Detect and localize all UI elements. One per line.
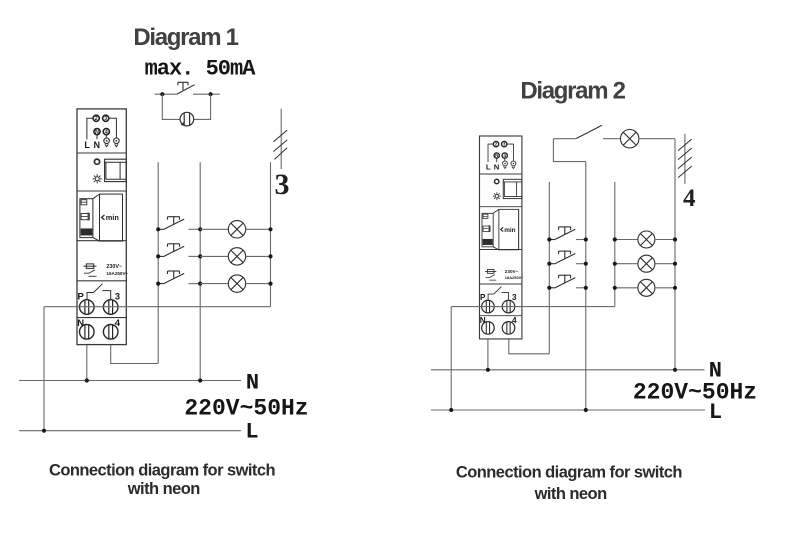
- wire column A d1 (to terminal 4): [157, 162, 159, 363]
- wire lamp H2 feed: [200, 255, 228, 257]
- title Diagram 2: [520, 78, 625, 105]
- label 3: [275, 168, 290, 201]
- svg-text:Diagram 1: Diagram 1: [133, 24, 238, 51]
- wire S1 to column B: [189, 228, 201, 230]
- node S6 column B: [584, 262, 588, 266]
- wire neon-annotation bus: [155, 93, 220, 95]
- wire lamp H6 return: [655, 263, 675, 265]
- wire S3 to column B: [189, 283, 201, 285]
- svg-text:N: N: [94, 140, 101, 150]
- wire supply riser 3-wire hash: [280, 109, 282, 169]
- device LED and override button: [93, 159, 127, 183]
- wire column A d2 (to terminal 4): [548, 182, 550, 354]
- wire lamp H7 feed: [615, 287, 638, 289]
- caption diagram 1: [49, 462, 276, 499]
- lamp H1: [228, 221, 245, 238]
- label max. 50mA: [145, 57, 257, 82]
- pushbutton S7: [549, 275, 575, 288]
- neon lamp E0: [180, 112, 194, 126]
- svg-text:3: 3: [275, 168, 290, 201]
- timer switch module U2 (Diagram 2): [479, 136, 524, 339]
- terminal N screw: [80, 325, 95, 340]
- device rating label 230V~ 16A250V~: [84, 264, 129, 276]
- wire L drop d1: [43, 307, 45, 431]
- svg-text:L: L: [709, 400, 722, 425]
- wire neon loop right: [194, 94, 211, 119]
- node lamp H1 return: [268, 227, 272, 231]
- svg-text:4: 4: [105, 130, 108, 136]
- wire P line d1: [44, 306, 271, 308]
- switch S4 top d2: [576, 125, 602, 138]
- svg-text:3: 3: [104, 116, 107, 122]
- svg-text:with neon: with neon: [534, 485, 608, 503]
- device section dividers: [77, 153, 126, 318]
- node S1 column B: [198, 227, 202, 231]
- svg-text:2: 2: [95, 116, 98, 122]
- node lamp H2 return: [268, 254, 272, 258]
- node S6 column A: [547, 262, 551, 266]
- timer switch module body: [77, 109, 126, 345]
- wire terminal-N drop d1: [86, 339, 88, 380]
- label 220V~50Hz d1: [184, 396, 308, 422]
- node S2 column B: [198, 254, 202, 258]
- label 220V~50Hz d2: [633, 380, 757, 406]
- wire step to column B d2: [553, 139, 585, 162]
- wire lamp H2 return: [246, 255, 271, 257]
- wire lamp H1 return: [246, 228, 271, 230]
- lamp H5: [638, 231, 655, 248]
- label N d1: [246, 371, 259, 396]
- svg-text:N: N: [95, 130, 99, 136]
- svg-text:L: L: [84, 140, 90, 150]
- lamp H6: [638, 255, 655, 272]
- wire S7 to column B: [576, 287, 586, 289]
- pushbutton S2: [158, 244, 184, 257]
- terminal 4 screw: [103, 325, 118, 340]
- wire column C d2 (lamp feed): [614, 182, 616, 307]
- device timer dial (min): [80, 194, 123, 241]
- node lamp H7 feed: [613, 286, 617, 290]
- node S0 right: [209, 92, 213, 96]
- wire top row right d2: [639, 138, 675, 140]
- terminal P screw: [80, 300, 95, 315]
- node S3 column A: [156, 282, 160, 286]
- node S5 column A: [547, 237, 551, 241]
- wire column B d1 (to N): [199, 162, 201, 380]
- svg-text:min: min: [106, 213, 120, 222]
- wire N line d1: [19, 380, 241, 382]
- wire S2 to column B: [189, 255, 201, 257]
- wire lamp H5 feed: [615, 239, 638, 241]
- wire neon loop left: [162, 94, 180, 119]
- node column B at N d1: [198, 378, 202, 382]
- node lamp H6 feed: [613, 262, 617, 266]
- terminal 3 screw: [103, 300, 118, 315]
- pushbutton S3: [158, 271, 184, 284]
- label 4: [683, 185, 696, 212]
- node N-terminal junction d1: [85, 378, 89, 382]
- svg-text:N: N: [246, 371, 259, 396]
- svg-text:L: L: [245, 420, 258, 445]
- svg-text:16A250V~: 16A250V~: [106, 271, 128, 276]
- title Diagram 1: [133, 24, 238, 51]
- wire column D d2 (lamp return to N): [674, 139, 676, 370]
- wire supply riser 4-wire hash: [684, 134, 686, 184]
- svg-text:Connection diagram for switch: Connection diagram for switch: [49, 462, 276, 480]
- wire L drop d2: [450, 307, 452, 410]
- node lamp H7 return: [673, 286, 677, 290]
- wire lamp H7 return: [655, 287, 675, 289]
- timer switch module U1 (Diagram 1): [77, 109, 129, 345]
- node S0 left: [160, 92, 164, 96]
- device contact P-3: [78, 284, 121, 303]
- pushbutton S1: [158, 217, 184, 230]
- svg-text:230V~: 230V~: [106, 264, 122, 270]
- svg-text:with neon: with neon: [127, 480, 201, 498]
- node L-drop junction d2: [449, 408, 453, 412]
- wire S6 to column B: [576, 263, 586, 265]
- svg-text:220V~50Hz: 220V~50Hz: [633, 380, 757, 406]
- node L junction d1: [42, 429, 46, 433]
- wire terminal-N drop d2: [487, 334, 489, 370]
- node lamp H5 feed: [613, 237, 617, 241]
- node S7 column B: [584, 286, 588, 290]
- node lamp H5 return: [673, 237, 677, 241]
- node lamp H6 return: [673, 262, 677, 266]
- wire column C d1 (lamp return): [270, 162, 272, 306]
- svg-text:max. 50mA: max. 50mA: [145, 57, 257, 82]
- pushbutton S0 annotation: [177, 82, 195, 94]
- label L d1: [245, 420, 258, 445]
- wire terminal-4 jog d2: [509, 334, 550, 354]
- svg-text:Diagram 2: Diagram 2: [520, 78, 625, 105]
- label L d2: [709, 400, 722, 425]
- node N-terminal junction d2: [486, 368, 490, 372]
- wire S5 to column B: [576, 239, 586, 241]
- wire top row left d2: [553, 138, 576, 140]
- hash marks 3 conductors: [273, 130, 287, 159]
- wire N line d2: [431, 369, 705, 371]
- lamp H3: [228, 275, 245, 292]
- wire terminal-4 jog d1: [111, 339, 159, 363]
- node S5 column B: [584, 237, 588, 241]
- node column D at N d2: [673, 368, 677, 372]
- node column B at L d2: [584, 408, 588, 412]
- node S3 column B: [198, 282, 202, 286]
- caption diagram 2: [456, 464, 683, 504]
- node lamp H3 return: [268, 282, 272, 286]
- wire lamp H1 feed: [200, 228, 228, 230]
- wire L line d2: [431, 409, 705, 411]
- wire lamp H3 feed: [200, 283, 228, 285]
- wire lamp H6 feed: [615, 263, 638, 265]
- node S7 column A: [547, 286, 551, 290]
- hash marks 4 conductors: [678, 139, 692, 178]
- wire lamp H3 return: [246, 283, 271, 285]
- wire top row mid d2: [603, 138, 621, 140]
- lamp H2: [228, 248, 245, 265]
- node S2 column A: [156, 254, 160, 258]
- svg-text:220V~50Hz: 220V~50Hz: [184, 396, 308, 422]
- device labels N 4: [77, 318, 120, 329]
- pushbutton S6: [549, 251, 575, 264]
- node S1 column A: [156, 227, 160, 231]
- svg-text:Connection diagram for switch: Connection diagram for switch: [456, 464, 683, 482]
- wire L line d1: [19, 430, 241, 432]
- svg-text:4: 4: [683, 185, 696, 212]
- wire column B d2 (to L): [585, 162, 587, 410]
- wire lamp H5 return: [655, 239, 675, 241]
- lamp H4 top d2: [621, 130, 639, 148]
- pushbutton S5: [549, 227, 575, 240]
- wire P line d2: [451, 306, 615, 308]
- label N d2: [709, 359, 722, 384]
- device terminal legend 2 3 N 4 L N: [84, 115, 119, 150]
- lamp H7: [638, 279, 655, 296]
